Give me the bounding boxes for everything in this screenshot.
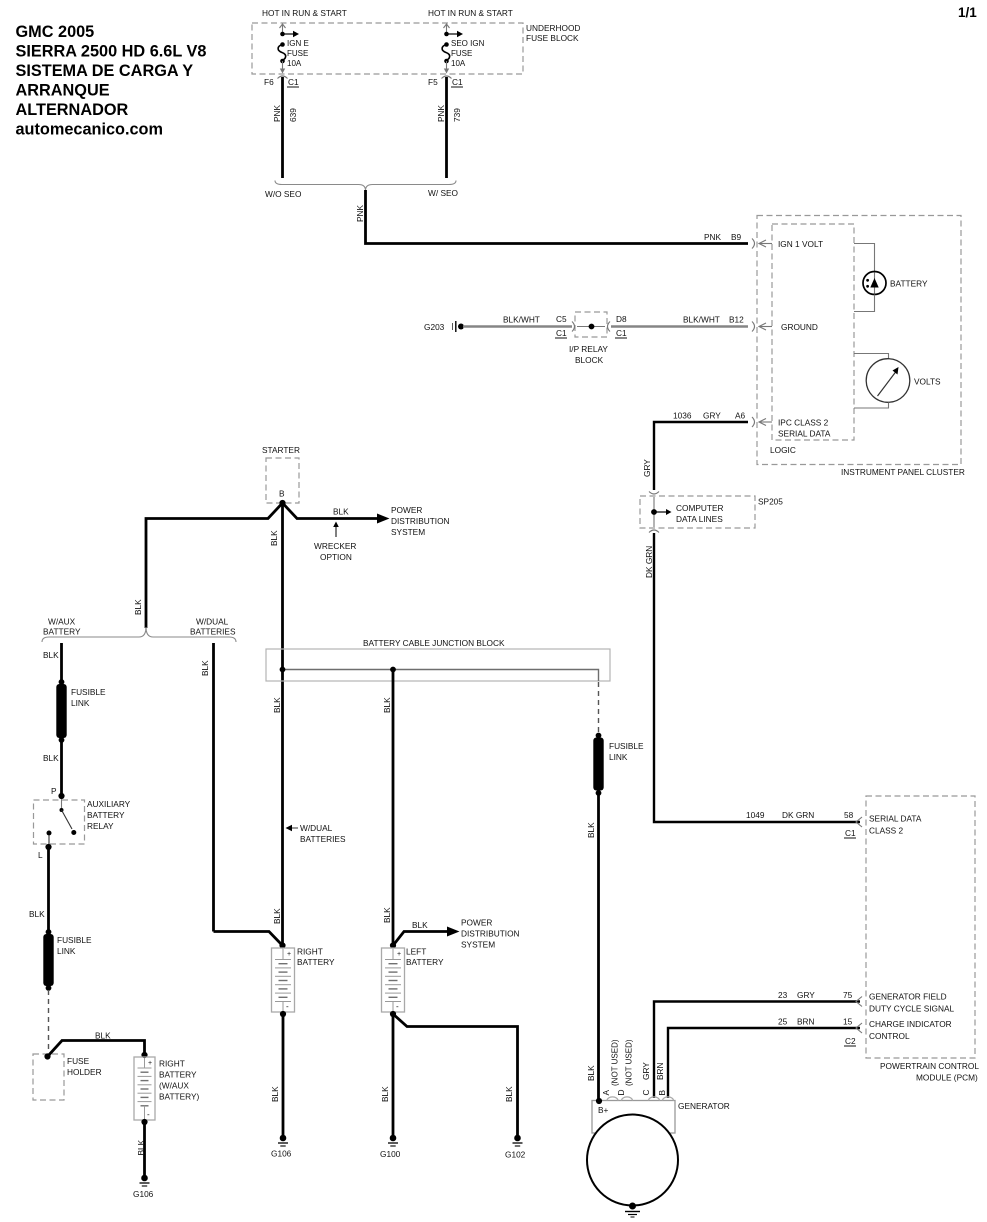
svg-text:SERIAL DATA: SERIAL DATA — [778, 429, 831, 439]
pin B9 IGN 1 VOLT entry arrow — [759, 239, 823, 249]
svg-text:CLASS 2: CLASS 2 — [869, 826, 904, 836]
svg-text:GRY: GRY — [641, 1062, 651, 1080]
svg-text:BLK: BLK — [586, 822, 596, 838]
svg-text:GRY: GRY — [797, 990, 815, 1000]
svg-text:SISTEMA DE CARGA Y: SISTEMA DE CARGA Y — [16, 62, 194, 80]
wire BLK starter to left branch — [133, 503, 283, 628]
title block — [16, 23, 207, 139]
svg-text:BLK: BLK — [380, 1086, 390, 1102]
wire 23 GRY 75 generator field — [654, 990, 955, 1098]
svg-text:PNK: PNK — [355, 204, 365, 222]
svg-text:CHARGE INDICATOR: CHARGE INDICATOR — [869, 1019, 952, 1029]
label W/DUAL BATTERIES pointer — [286, 823, 346, 844]
svg-text:-: - — [396, 1002, 399, 1011]
wire BLK/WHT relay block to IPC B12 — [611, 314, 755, 338]
starter (dashed box) — [262, 445, 300, 503]
svg-text:D8: D8 — [616, 314, 627, 324]
svg-text:FUSE BLOCK: FUSE BLOCK — [526, 33, 579, 43]
svg-text:-: - — [147, 1110, 150, 1119]
wire BLK to relay pin P — [43, 742, 62, 796]
auxiliary battery relay (dashed box) — [34, 799, 131, 845]
ground G100 — [380, 1135, 401, 1159]
svg-text:BATTERY: BATTERY — [43, 627, 81, 637]
wire BLK left battery branch to G102 — [393, 1014, 518, 1135]
fusible link 3 — [593, 733, 644, 796]
svg-text:FUSIBLE: FUSIBLE — [71, 687, 106, 697]
svg-text:HOT IN RUN & START: HOT IN RUN & START — [428, 8, 513, 18]
node L — [38, 844, 52, 860]
svg-text:POWERTRAIN CONTROL: POWERTRAIN CONTROL — [880, 1061, 979, 1071]
ground G203 — [424, 321, 464, 332]
svg-text:FUSE: FUSE — [287, 49, 308, 58]
svg-text:LINK: LINK — [71, 698, 90, 708]
svg-text:automecanico.com: automecanico.com — [16, 121, 163, 139]
instrument panel cluster (outer dashed box) — [757, 216, 965, 478]
wire 25 BRN 15 charge indicator — [668, 1017, 952, 1099]
svg-text:WRECKER: WRECKER — [314, 541, 356, 551]
svg-text:FUSE: FUSE — [451, 49, 472, 58]
svg-text:BATTERIES: BATTERIES — [300, 834, 346, 844]
svg-text:GROUND: GROUND — [781, 322, 818, 332]
splice SP205 computer data lines — [640, 492, 783, 533]
svg-text:10A: 10A — [451, 59, 466, 68]
svg-text:DATA LINES: DATA LINES — [676, 514, 723, 524]
fuse F5 SEO IGN 10A — [442, 24, 485, 79]
svg-text:LOGIC: LOGIC — [770, 445, 796, 455]
fuse F6 IGN E 10A — [278, 24, 309, 79]
svg-text:UNDERHOOD: UNDERHOOD — [526, 23, 580, 33]
svg-text:B: B — [657, 1090, 667, 1096]
ground G106 (aux) — [133, 1175, 154, 1199]
svg-text:BLK/WHT: BLK/WHT — [503, 315, 540, 325]
pin A6 IPC CLASS 2 SERIAL DATA entry arrow — [759, 418, 831, 439]
svg-text:BLK: BLK — [382, 697, 392, 713]
svg-text:C1: C1 — [616, 328, 627, 338]
svg-text:BLK: BLK — [29, 909, 45, 919]
brace W/AUX BATTERY / W/DUAL BATTERIES — [42, 617, 236, 643]
svg-text:SP205: SP205 — [758, 497, 783, 507]
svg-text:A: A — [601, 1090, 611, 1096]
wire 1049 DK GRN 58 to PCM — [644, 533, 862, 838]
svg-text:1/1: 1/1 — [958, 5, 977, 20]
wire BLK left battery drop — [382, 671, 393, 944]
svg-text:L: L — [38, 850, 43, 860]
fusible link 2 — [43, 929, 92, 991]
svg-text:SIERRA 2500 HD 6.6L V8: SIERRA 2500 HD 6.6L V8 — [16, 43, 207, 61]
svg-text:INSTRUMENT PANEL CLUSTER: INSTRUMENT PANEL CLUSTER — [841, 467, 965, 477]
svg-text:BLK: BLK — [272, 697, 282, 713]
svg-text:+: + — [397, 951, 401, 958]
wire BLK w/dual branch — [200, 643, 283, 946]
svg-text:BATTERY: BATTERY — [159, 1070, 197, 1080]
svg-text:BLK: BLK — [586, 1065, 596, 1081]
svg-text:1049: 1049 — [746, 810, 765, 820]
wire 1036 GRY A6 — [642, 411, 755, 491]
generator pin labels — [601, 1039, 667, 1095]
svg-text:BATTERY: BATTERY — [890, 279, 928, 289]
svg-text:RIGHT: RIGHT — [159, 1059, 185, 1069]
svg-text:ALTERNADOR: ALTERNADOR — [16, 101, 129, 119]
svg-text:B+: B+ — [598, 1105, 609, 1115]
volts gauge — [854, 354, 941, 409]
svg-text:LINK: LINK — [57, 946, 76, 956]
ground G106 — [271, 1135, 292, 1159]
svg-text:D: D — [616, 1090, 626, 1096]
svg-text:COMPUTER: COMPUTER — [676, 503, 723, 513]
svg-text:-: - — [286, 1002, 289, 1011]
svg-text:C1: C1 — [452, 77, 463, 87]
svg-text:SEO IGN: SEO IGN — [451, 39, 485, 48]
svg-text:BLK: BLK — [269, 530, 279, 546]
svg-text:G102: G102 — [505, 1150, 526, 1160]
underhood fuse block (dashed box) — [252, 23, 523, 74]
svg-text:I/P RELAY: I/P RELAY — [569, 344, 608, 354]
wire BLK/WHT G203 to I/P relay block — [463, 314, 572, 338]
wire BLK starter to power distribution system — [283, 503, 450, 537]
fusible link 1 — [56, 679, 106, 743]
svg-text:RIGHT: RIGHT — [297, 947, 323, 957]
svg-text:10A: 10A — [287, 59, 302, 68]
svg-text:GENERATOR FIELD: GENERATOR FIELD — [869, 992, 947, 1002]
label F6 C1 — [264, 77, 299, 87]
svg-text:DK GRN: DK GRN — [782, 810, 814, 820]
svg-text:BLK: BLK — [382, 907, 392, 923]
wrecker option tap — [314, 522, 356, 563]
svg-text:GENERATOR: GENERATOR — [678, 1101, 730, 1111]
svg-text:BLK: BLK — [333, 507, 349, 517]
wire PNK 739 from fuse F5 — [436, 77, 462, 178]
node B+ — [596, 1098, 602, 1104]
svg-text:LEFT: LEFT — [406, 947, 426, 957]
brace merge W/O SEO / W/ SEO — [265, 181, 459, 200]
svg-text:BLK: BLK — [270, 1086, 280, 1102]
svg-text:CONTROL: CONTROL — [869, 1031, 910, 1041]
svg-text:(W/AUX: (W/AUX — [159, 1081, 189, 1091]
right battery (w/aux battery) symbol — [134, 1052, 199, 1125]
svg-text:BLK: BLK — [43, 650, 59, 660]
left battery symbol — [382, 947, 444, 1018]
svg-text:GRY: GRY — [642, 459, 652, 477]
svg-text:75: 75 — [843, 990, 853, 1000]
svg-text:IPC CLASS 2: IPC CLASS 2 — [778, 418, 829, 428]
wire BLK aux battery to G106 — [136, 1124, 146, 1175]
svg-text:C1: C1 — [288, 77, 299, 87]
wire BLK fuse holder to aux battery — [48, 1031, 145, 1057]
svg-text:GRY: GRY — [703, 411, 721, 421]
logic box (inner dashed) — [770, 224, 854, 455]
svg-text:G100: G100 — [380, 1149, 401, 1159]
svg-text:P: P — [51, 786, 57, 796]
svg-text:B: B — [279, 489, 285, 499]
svg-text:BATTERY: BATTERY — [406, 957, 444, 967]
svg-text:639: 639 — [288, 108, 298, 122]
svg-text:C1: C1 — [556, 328, 567, 338]
generator — [587, 1097, 730, 1206]
svg-text:GMC 2005: GMC 2005 — [16, 23, 95, 41]
svg-text:C: C — [641, 1090, 651, 1096]
wire BLK w/aux branch — [43, 643, 62, 682]
svg-text:BATTERY: BATTERY — [297, 957, 335, 967]
pin B12 GROUND entry arrow — [759, 322, 818, 332]
svg-text:BLK: BLK — [200, 660, 210, 676]
svg-text:W/DUAL: W/DUAL — [300, 823, 333, 833]
svg-text:DISTRIBUTION: DISTRIBUTION — [461, 929, 520, 939]
svg-text:BLK/WHT: BLK/WHT — [683, 315, 720, 325]
node P — [58, 793, 64, 799]
svg-text:BRN: BRN — [797, 1017, 815, 1027]
svg-text:BLK: BLK — [136, 1139, 146, 1155]
svg-text:BATTERY): BATTERY) — [159, 1092, 199, 1102]
svg-text:BATTERIES: BATTERIES — [190, 627, 236, 637]
svg-text:F5: F5 — [428, 77, 438, 87]
svg-text:DUTY CYCLE SIGNAL: DUTY CYCLE SIGNAL — [869, 1004, 955, 1014]
svg-text:FUSIBLE: FUSIBLE — [609, 741, 644, 751]
wire dashed to fuse holder — [48, 990, 50, 1053]
svg-text:C1: C1 — [845, 828, 856, 838]
svg-text:HOLDER: HOLDER — [67, 1067, 102, 1077]
wire BLK relay L down — [29, 847, 49, 931]
svg-text:W/DUAL: W/DUAL — [196, 617, 229, 627]
node B starter terminal — [279, 500, 285, 506]
svg-text:BLK: BLK — [43, 753, 59, 763]
svg-text:SYSTEM: SYSTEM — [391, 527, 425, 537]
svg-text:PNK: PNK — [272, 104, 282, 122]
svg-text:+: + — [287, 951, 291, 958]
ground G102 — [505, 1135, 526, 1160]
label UNDERHOOD FUSE BLOCK — [526, 23, 580, 43]
svg-text:C5: C5 — [556, 314, 567, 324]
svg-text:BATTERY CABLE JUNCTION BLOCK: BATTERY CABLE JUNCTION BLOCK — [363, 638, 505, 648]
svg-text:W/O SEO: W/O SEO — [265, 189, 302, 199]
wire PNK 639 from fuse F6 — [272, 77, 298, 178]
svg-text:(NOT USED): (NOT USED) — [611, 1039, 620, 1086]
svg-text:G106: G106 — [271, 1149, 292, 1159]
svg-text:OPTION: OPTION — [320, 552, 352, 562]
wire BLK right battery to G106 — [270, 1016, 283, 1135]
svg-text:BLK: BLK — [133, 599, 143, 615]
svg-text:BLK: BLK — [272, 908, 282, 924]
svg-text:B12: B12 — [729, 315, 744, 325]
svg-text:FUSIBLE: FUSIBLE — [57, 935, 92, 945]
svg-text:G203: G203 — [424, 322, 445, 332]
svg-text:BATTERY: BATTERY — [87, 810, 125, 820]
svg-text:BLOCK: BLOCK — [575, 355, 604, 365]
svg-text:AUXILIARY: AUXILIARY — [87, 799, 131, 809]
svg-text:BRN: BRN — [655, 1062, 665, 1080]
svg-text:PNK: PNK — [436, 104, 446, 122]
svg-text:15: 15 — [843, 1017, 853, 1027]
pin 58 SERIAL DATA CLASS 2 — [869, 814, 922, 836]
right battery symbol — [272, 942, 335, 1017]
svg-text:POWER: POWER — [461, 918, 492, 928]
svg-text:58: 58 — [844, 810, 854, 820]
I/P relay block — [569, 312, 610, 365]
svg-text:STARTER: STARTER — [262, 445, 300, 455]
battery cable junction block — [266, 638, 610, 681]
svg-text:VOLTS: VOLTS — [914, 377, 941, 387]
svg-text:SERIAL DATA: SERIAL DATA — [869, 814, 922, 824]
svg-text:(NOT USED): (NOT USED) — [625, 1039, 634, 1086]
svg-text:A6: A6 — [735, 411, 746, 421]
svg-text:BLK: BLK — [95, 1031, 111, 1041]
svg-text:W/AUX: W/AUX — [48, 617, 76, 627]
powertrain control module PCM (dashed box) — [866, 796, 979, 1083]
wire BLK left battery to power distribution system — [390, 918, 520, 950]
wire BLK to generator B+ — [586, 795, 599, 1101]
svg-text:C2: C2 — [845, 1036, 856, 1046]
svg-text:25: 25 — [778, 1017, 788, 1027]
generator case ground — [625, 1203, 640, 1218]
svg-text:IGN E: IGN E — [287, 39, 309, 48]
wire BLK starter main cable down — [269, 503, 283, 944]
svg-text:HOT IN RUN & START: HOT IN RUN & START — [262, 8, 347, 18]
svg-text:LINK: LINK — [609, 752, 628, 762]
svg-text:RELAY: RELAY — [87, 821, 114, 831]
svg-text:DISTRIBUTION: DISTRIBUTION — [391, 516, 450, 526]
wire dashed junction block to fusible link 3 — [598, 682, 600, 733]
svg-text:POWER: POWER — [391, 505, 422, 515]
svg-text:F6: F6 — [264, 77, 274, 87]
svg-text:B9: B9 — [731, 232, 742, 242]
svg-text:BLK: BLK — [412, 920, 428, 930]
svg-text:1036: 1036 — [673, 411, 692, 421]
svg-text:ARRANQUE: ARRANQUE — [16, 82, 110, 100]
svg-text:IGN 1 VOLT: IGN 1 VOLT — [778, 239, 823, 249]
svg-text:SYSTEM: SYSTEM — [461, 940, 495, 950]
svg-text:739: 739 — [452, 108, 462, 122]
svg-text:FUSE: FUSE — [67, 1056, 90, 1066]
svg-text:MODULE (PCM): MODULE (PCM) — [916, 1073, 978, 1083]
svg-text:+: + — [148, 1060, 152, 1067]
fuse holder (dashed box) — [33, 1053, 102, 1100]
svg-text:G106: G106 — [133, 1189, 154, 1199]
svg-text:DK GRN: DK GRN — [644, 546, 654, 578]
svg-text:PNK: PNK — [704, 232, 722, 242]
battery telltale lamp — [854, 244, 928, 312]
wire PNK merged to IPC — [355, 190, 755, 249]
svg-text:BLK: BLK — [504, 1086, 514, 1102]
label F5 C1 — [428, 77, 463, 87]
svg-text:23: 23 — [778, 990, 788, 1000]
wire BLK left battery to G100 — [380, 1016, 393, 1135]
svg-text:W/ SEO: W/ SEO — [428, 188, 459, 198]
